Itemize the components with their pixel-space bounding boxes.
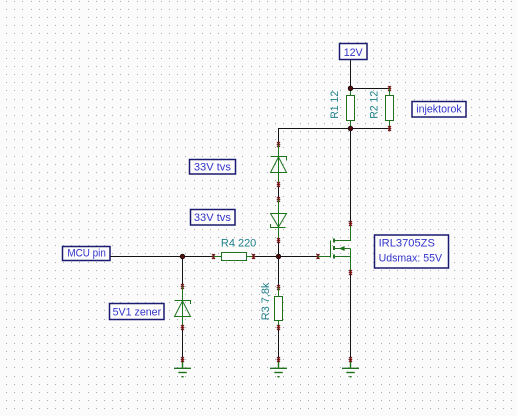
node junction MCU/zener — [180, 254, 185, 259]
label MCU pin — [63, 247, 111, 261]
svg-text:MCU pin: MCU pin — [67, 248, 106, 260]
svg-text:injektorok: injektorok — [416, 104, 462, 116]
svg-text:R2 12: R2 12 — [369, 91, 381, 119]
wire MCU node to zener — [182, 257, 184, 287]
diode D1 33V tvs top — [271, 142, 287, 187]
wire between TVS diodes — [278, 185, 280, 200]
ground left — [174, 360, 191, 377]
wire source to ground — [350, 273, 352, 360]
label injektorok — [412, 102, 466, 118]
wire MCU pin rail — [110, 256, 318, 258]
svg-text:33V tvs: 33V tvs — [194, 212, 231, 224]
resistor R2 — [369, 86, 394, 131]
resistor R3 — [260, 282, 283, 330]
label 5V1 zener — [110, 304, 165, 320]
label 12V — [340, 44, 368, 60]
wire 12V supply drop — [350, 60, 352, 89]
resistor R1 — [329, 89, 354, 129]
label 33V tvs upper — [190, 160, 236, 175]
pin left ground — [181, 357, 184, 362]
diode D2 33V tvs bottom — [271, 197, 287, 243]
node junction mid rail — [348, 126, 353, 131]
svg-text:5V1 zener: 5V1 zener — [113, 307, 162, 319]
wire drain drop — [350, 129, 352, 224]
transistor Q1 IRL3705ZS — [316, 221, 352, 275]
pin middle ground — [277, 357, 280, 362]
wire TVS column corner drop — [278, 128, 280, 145]
label 33V tvs lower — [191, 210, 236, 226]
node junction gate/R3 — [276, 254, 281, 259]
svg-text:Udsmax: 55V: Udsmax: 55V — [379, 253, 443, 265]
svg-text:R4 220: R4 220 — [221, 238, 256, 250]
pin right ground — [349, 357, 352, 362]
svg-text:12V: 12V — [344, 47, 363, 59]
ground middle — [270, 360, 287, 377]
wire top rail to R2 — [351, 88, 390, 90]
svg-text:R3 7,8k: R3 7,8k — [260, 282, 272, 320]
wire TVS bottom to gate rail — [278, 241, 280, 288]
label IRL3705ZS Udsmax: 55V — [375, 235, 449, 268]
wire mid rail R1/R2 bottoms to TVS column — [279, 128, 390, 130]
ground right — [342, 360, 359, 377]
wire zener to ground — [182, 328, 184, 360]
resistor R4 — [212, 238, 256, 261]
zener Z1 5V1 — [175, 284, 191, 330]
wire R3 to ground — [278, 328, 280, 360]
svg-text:IRL3705ZS: IRL3705ZS — [379, 237, 436, 249]
svg-text:33V tvs: 33V tvs — [194, 161, 231, 173]
svg-text:R1 12: R1 12 — [329, 91, 341, 119]
node junction 12V rail — [348, 86, 353, 91]
